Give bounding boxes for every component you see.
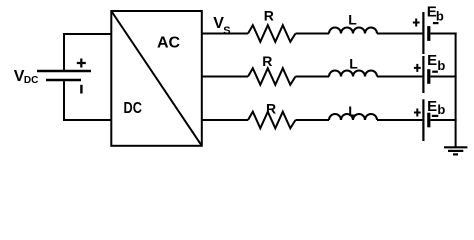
short plate xyxy=(427,69,430,84)
short plate xyxy=(427,26,430,41)
VDC short plate xyxy=(46,79,81,81)
plus sign (bottom battery) xyxy=(414,109,421,117)
battery Eb (bottom) xyxy=(414,99,438,141)
wire: VDC bottom to inverter xyxy=(64,81,112,120)
svg-text:R: R xyxy=(262,53,272,69)
svg-text:L: L xyxy=(349,56,358,72)
svg-text:E: E xyxy=(427,98,437,115)
wire: battery to right bus (mid) xyxy=(430,76,456,78)
battery Eb (top) xyxy=(413,12,439,54)
svg-text:AC: AC xyxy=(157,35,181,52)
battery Eb (mid) xyxy=(414,56,438,93)
resistor R (mid) xyxy=(248,68,296,85)
wire: inverter to R1 xyxy=(202,33,248,35)
short plate xyxy=(427,113,430,128)
svg-text:R: R xyxy=(266,101,276,117)
wire: L to battery (top) xyxy=(377,33,422,35)
wire: R to L (top) xyxy=(296,33,330,35)
inverter box U1 xyxy=(111,11,202,146)
wire: R to L (bottom) xyxy=(296,119,330,121)
long plate xyxy=(422,12,424,54)
wire: battery to right bus (top) xyxy=(430,33,456,35)
wire: VDC top to inverter xyxy=(64,34,112,70)
wire: battery to right bus (bottom) xyxy=(430,119,456,121)
svg-text:L: L xyxy=(348,11,357,27)
minus sign (mid battery) xyxy=(432,71,438,73)
svg-text:E: E xyxy=(427,52,437,69)
svg-text:b: b xyxy=(436,9,444,24)
VDC long plate xyxy=(37,70,91,72)
ground xyxy=(444,147,467,154)
label Eb (top) xyxy=(427,3,444,23)
wire: inverter to R (mid) xyxy=(202,76,248,78)
wire: L to battery (mid) xyxy=(377,76,422,78)
inductor L (bottom) xyxy=(329,114,377,120)
VDC plus sign xyxy=(77,59,86,68)
svg-text:L: L xyxy=(348,103,357,119)
wire: L to battery (bottom) xyxy=(377,119,422,121)
svg-text:DC: DC xyxy=(124,100,143,117)
resistor R (top) xyxy=(248,25,296,42)
svg-text:b: b xyxy=(437,102,445,117)
label Eb (mid) xyxy=(427,52,445,73)
wire: inverter to R (bottom) xyxy=(202,119,248,121)
minus sign (top battery) xyxy=(433,22,439,24)
inductor L (mid) xyxy=(329,71,377,77)
plus sign (mid battery) xyxy=(414,64,421,72)
svg-text:DC: DC xyxy=(24,75,38,86)
minus sign (bottom battery) xyxy=(432,115,439,117)
label VS xyxy=(213,15,230,37)
svg-text:S: S xyxy=(223,25,230,37)
label VDC xyxy=(14,68,39,86)
inductor L (top) xyxy=(329,28,377,34)
resistor R (bottom) xyxy=(248,112,296,129)
VDC minus tick xyxy=(80,85,82,94)
right bus wire xyxy=(455,33,457,148)
svg-text:b: b xyxy=(437,58,445,73)
plus sign (top battery) xyxy=(413,19,420,27)
battery VDC xyxy=(37,59,91,94)
long plate xyxy=(422,99,424,141)
long plate xyxy=(422,56,424,93)
label Eb (bottom) xyxy=(427,98,445,117)
svg-text:R: R xyxy=(264,8,274,24)
wire: R to L (mid) xyxy=(296,76,330,78)
